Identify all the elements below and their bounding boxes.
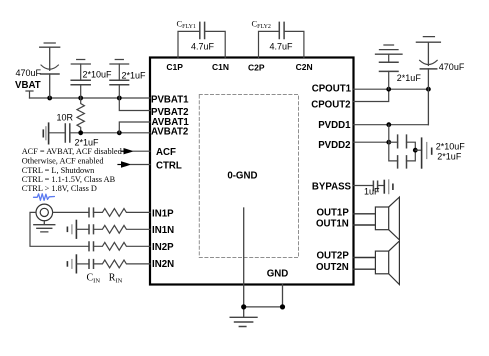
junction PVDD2 — [386, 140, 391, 145]
resistor RIN1P — [94, 209, 151, 217]
capacitor CIN2P — [89, 242, 94, 251]
wire GND pin down — [282, 285, 284, 307]
wire BYPASS — [354, 185, 374, 187]
svg-text:2*10uF: 2*10uF — [436, 142, 466, 152]
svg-text:C1P: C1P — [166, 62, 183, 72]
svg-text:10R: 10R — [57, 113, 74, 123]
wire PVDD1 — [354, 124, 429, 126]
source J1 (audio input) — [36, 204, 53, 221]
svg-text:ACF = AVBAT, ACF disabled: ACF = AVBAT, ACF disabled — [22, 147, 123, 156]
terminal stub AVBAT2 (polarized cap lead) — [43, 123, 48, 144]
svg-text:2*10uF: 2*10uF — [83, 69, 113, 79]
ground above 470uF right — [416, 37, 440, 43]
capacitor CFLY2 — [259, 22, 304, 57]
wire PVDD2 — [354, 141, 389, 143]
capacitor 2*10uF — [71, 64, 90, 98]
svg-text:ACF: ACF — [156, 147, 176, 158]
wire OUT1P — [354, 213, 376, 215]
svg-text:IN2N: IN2N — [152, 259, 174, 270]
junction VBAT/C2*10uF — [78, 96, 83, 101]
svg-text:BYPASS: BYPASS — [312, 182, 352, 193]
svg-text:CTRL > 1.8V, Class D: CTRL > 1.8V, Class D — [22, 184, 97, 193]
capacitor 470uF left — [41, 47, 60, 98]
svg-text:2*1uF: 2*1uF — [437, 152, 462, 162]
svg-text:C2P: C2P — [248, 63, 265, 73]
polarized cap lead BYPASS — [384, 180, 393, 194]
junction GND right — [280, 304, 285, 309]
wire source to IN1P — [53, 211, 89, 213]
wire IN2N lead — [76, 263, 89, 265]
junction CPOUT1/470uF — [426, 87, 431, 92]
svg-text:OUT1N: OUT1N — [316, 218, 349, 229]
svg-text:OUT2P: OUT2P — [316, 251, 349, 262]
arrow into ACF — [121, 150, 124, 152]
junction AVBAT1 stub — [117, 130, 122, 135]
resistor RIN2N — [94, 260, 151, 268]
wire 0-GND stub — [243, 208, 245, 317]
svg-text:4.7uF: 4.7uF — [270, 42, 294, 52]
svg-text:470uF: 470uF — [16, 68, 42, 78]
junction 10R/AVBAT2 — [78, 130, 83, 135]
wire GND tie — [244, 306, 283, 308]
junction PVDD caps — [413, 148, 418, 153]
wire PVBAT2 branch — [119, 98, 150, 111]
speaker LS2 — [375, 241, 399, 285]
wire AVBAT1 branch — [119, 122, 150, 133]
wire CPOUT1 — [354, 88, 430, 90]
svg-text:OUT1P: OUT1P — [316, 208, 349, 219]
polarized cap lead PVDD — [415, 149, 421, 151]
svg-text:IN1N: IN1N — [152, 225, 174, 236]
resistor RIN2P — [94, 242, 151, 250]
ground above 2*10uF — [71, 60, 90, 65]
ground above 2*1uF right — [376, 45, 403, 54]
wire OUT2P — [354, 257, 376, 259]
svg-text:2*1uF: 2*1uF — [397, 73, 422, 83]
capacitor 1uF BYPASS — [373, 181, 384, 190]
svg-text:470uF: 470uF — [439, 62, 465, 72]
svg-text:PVBAT1: PVBAT1 — [151, 95, 189, 106]
arrow into CTRL — [118, 164, 122, 166]
scribble annotation (blue) — [34, 194, 55, 201]
capacitor CIN1N — [89, 225, 94, 234]
junction PVDD1 branch — [386, 122, 391, 127]
capacitor CIN2N — [89, 260, 94, 269]
svg-text:IN1P: IN1P — [152, 209, 174, 220]
capacitor 2*1uF left — [110, 64, 129, 98]
junction VBAT/C470uF — [47, 96, 52, 101]
wire PVDD decoupling bracket — [389, 125, 398, 161]
wire source to IN2P — [30, 212, 89, 246]
svg-text:OUT2N: OUT2N — [316, 262, 349, 273]
svg-text:IN2P: IN2P — [152, 242, 174, 253]
terminal stub IN2N (polarized cap lead) — [67, 255, 76, 273]
0-GND dashed region — [199, 95, 298, 258]
capacitor PVDD bottom — [398, 150, 416, 168]
capacitor 470uF right — [420, 42, 438, 125]
svg-text:GND: GND — [267, 268, 289, 279]
wire CPOUT2 — [354, 89, 389, 101]
svg-text:C1N: C1N — [212, 62, 229, 72]
ground above 2*1uF left — [110, 60, 129, 65]
ground under source — [34, 221, 55, 232]
wire CTRL — [131, 164, 151, 166]
svg-text:PVDD2: PVDD2 — [318, 140, 350, 151]
wire IN1N lead — [76, 228, 89, 230]
capacitor CIN1P — [89, 208, 94, 217]
capacitor CFLY1 — [178, 22, 225, 57]
resistor 10R — [77, 98, 84, 133]
junction CPOUT1/2*1uF — [386, 87, 391, 92]
wire ACF — [133, 150, 150, 152]
junction VBAT/C2*1uF — [117, 96, 122, 101]
svg-text:CTRL: CTRL — [156, 161, 182, 172]
wire VBAT rail to PVBAT1 — [30, 97, 151, 99]
terminal stub IN1N (polarized cap lead) — [67, 221, 76, 239]
wire OUT1N — [354, 224, 376, 226]
svg-text:4.7uF: 4.7uF — [191, 42, 215, 52]
capacitor PVDD top — [389, 135, 416, 150]
svg-text:2*1uF: 2*1uF — [75, 138, 100, 148]
svg-text:CPOUT1: CPOUT1 — [312, 84, 352, 95]
wire OUT2N — [354, 268, 376, 270]
svg-text:AVBAT2: AVBAT2 — [151, 127, 188, 138]
resistor RIN1N — [94, 225, 151, 233]
node VBAT terminal — [26, 91, 33, 98]
svg-text:C2N: C2N — [296, 62, 313, 72]
IC U1 body — [150, 58, 354, 285]
svg-text:CPOUT2: CPOUT2 — [311, 100, 350, 111]
svg-text:CTRL = L, Shutdown: CTRL = L, Shutdown — [22, 166, 95, 175]
speaker LS1 — [375, 197, 399, 240]
capacitor 2*1uF right — [380, 54, 399, 89]
ground above 470uF left — [40, 43, 60, 47]
svg-text:CTRL = 1.1-1.5V, Class AB: CTRL = 1.1-1.5V, Class AB — [22, 175, 116, 184]
svg-text:1uF: 1uF — [364, 187, 380, 197]
svg-text:PVDD1: PVDD1 — [318, 120, 351, 131]
ground main — [230, 317, 257, 326]
svg-text:2*1uF: 2*1uF — [122, 70, 147, 80]
svg-text:VBAT: VBAT — [15, 80, 41, 91]
junction GND left — [241, 304, 246, 309]
svg-text:0-GND: 0-GND — [227, 170, 257, 181]
capacitor 2*1uF AVBAT — [49, 124, 150, 142]
svg-text:Otherwise, ACF enabled: Otherwise, ACF enabled — [22, 157, 105, 166]
